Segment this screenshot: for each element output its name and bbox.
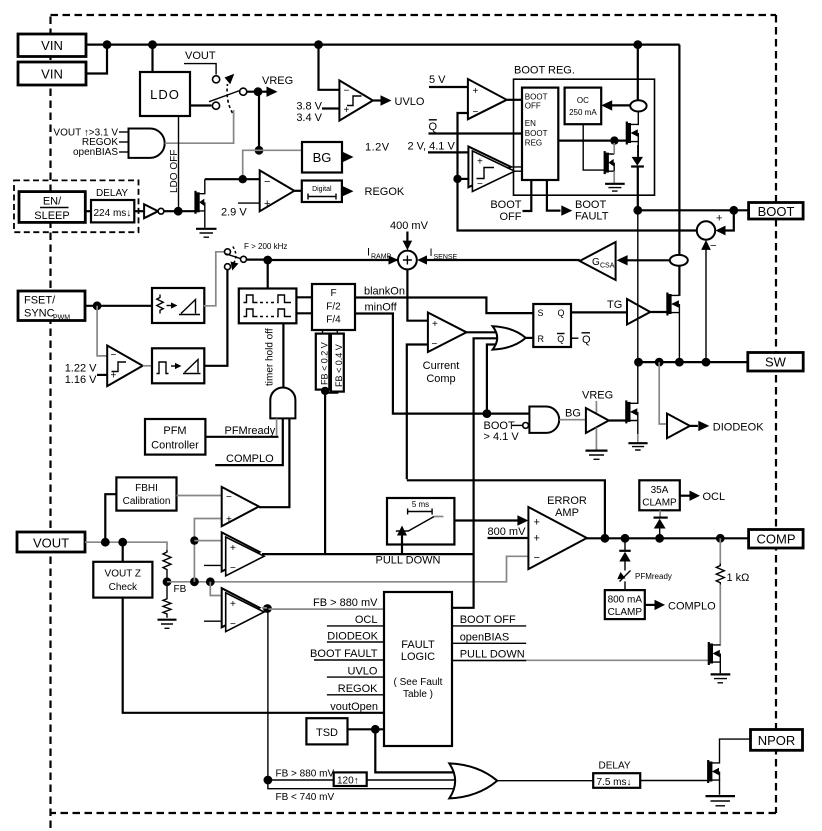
svg-text:VOUT Z: VOUT Z	[105, 569, 141, 580]
delay 7.5ms box	[593, 773, 640, 788]
svg-text:F: F	[330, 288, 336, 299]
wire BOOT OFF down-left label stub	[490, 180, 531, 223]
stub FB880 comp minus	[204, 620, 222, 622]
svg-text:PFM: PFM	[163, 425, 186, 437]
node junction rail/LDO	[148, 40, 157, 49]
svg-text:800 mA: 800 mA	[608, 595, 643, 606]
PULL DOWN arrow into 5ms box	[376, 526, 441, 567]
node SW/summing	[702, 358, 711, 367]
wire comp node to current comp minus	[407, 345, 428, 480]
fault input BOOT FAULT	[310, 648, 384, 660]
wire EN/SLEEP to 224ms	[85, 210, 91, 212]
svg-text:COMPLO: COMPLO	[668, 601, 716, 613]
OCL output arrow	[680, 491, 725, 504]
svg-text:BOOT: BOOT	[758, 204, 795, 219]
switch pole contact	[240, 88, 247, 95]
F switch top contact	[225, 249, 231, 255]
VOUT label at switch	[184, 50, 216, 75]
comparator U-FB02 double outline	[222, 532, 264, 575]
svg-text:+: +	[432, 319, 438, 330]
wire timer hold off	[282, 324, 284, 388]
node FB	[163, 577, 172, 586]
node EA/35clamp	[655, 534, 664, 543]
svg-text:VOUT: VOUT	[33, 536, 69, 551]
svg-text:35A: 35A	[651, 485, 669, 496]
svg-text:−: −	[432, 339, 438, 350]
wire FSET to ramp gen	[85, 305, 152, 307]
COMP terminal box	[749, 530, 804, 549]
wire comp2 double output to BOOT REG	[511, 167, 522, 171]
svg-text:Q: Q	[582, 334, 591, 346]
wire pulse box to divider (2)	[296, 297, 312, 313]
driver U-BG	[586, 408, 609, 433]
svg-text:openBIAS: openBIAS	[460, 632, 510, 644]
svg-text:AMP: AMP	[555, 507, 579, 519]
svg-text:LOGIC: LOGIC	[401, 651, 435, 663]
wire FB up to FBHI comp plus	[194, 519, 221, 582]
svg-text:OFF: OFF	[500, 211, 522, 223]
label 3.8V 3.4V	[296, 101, 339, 125]
OC 250mA box	[565, 88, 602, 125]
svg-text:openBIAS: openBIAS	[73, 147, 118, 158]
svg-text:EN: EN	[525, 119, 536, 128]
svg-text:BOOT REG.: BOOT REG.	[514, 65, 575, 77]
svg-text:UVLO: UVLO	[395, 96, 425, 108]
wire BG driver to FET gate	[609, 419, 627, 421]
label 2V 4.1V	[408, 141, 469, 153]
svg-text:NPOR: NPOR	[758, 733, 796, 748]
label BOOT>4.1V nand input	[484, 420, 529, 443]
resistor R1	[163, 550, 171, 582]
svg-text:−: −	[534, 552, 540, 564]
wire TSD node to POR or	[375, 729, 456, 772]
REGOK output arrow	[343, 186, 405, 198]
summing junction BOOT-SW	[697, 213, 723, 253]
wire sense ellipse to GCSA input	[617, 255, 670, 265]
driver U-TG	[627, 299, 650, 325]
svg-text:I: I	[430, 247, 433, 259]
wire VOUT to VOUT Z check	[122, 542, 124, 562]
svg-text:S: S	[538, 308, 544, 318]
wire 5ms to error amp plus arrow	[454, 515, 528, 525]
Digital filter box	[302, 181, 342, 203]
wire BOOT to summing plus	[715, 210, 733, 235]
fault output PULL DOWN	[452, 649, 526, 661]
svg-text:TG: TG	[607, 299, 622, 311]
COMPLO output arrow	[645, 600, 716, 613]
svg-text:BOOT: BOOT	[490, 199, 521, 211]
svg-text:Q: Q	[557, 334, 564, 344]
svg-text:−: −	[264, 176, 270, 188]
svg-text:Calibration: Calibration	[123, 496, 171, 507]
frequency divider box F F/2 F/4	[312, 284, 355, 330]
error amplifier U-EA	[528, 495, 587, 569]
svg-text:+: +	[716, 213, 722, 225]
wire FBHI box to comp minus	[177, 495, 222, 497]
node FB boxes output	[321, 387, 329, 395]
transistor Q-BOOT-HI	[627, 112, 639, 157]
node EA/currentcomp	[601, 534, 610, 543]
wire rail to LDO	[151, 45, 153, 72]
svg-text:I: I	[367, 247, 370, 259]
ground below R2	[158, 620, 177, 629]
VOUT Z Check box	[93, 562, 152, 598]
AND gate U-LDOOFF 3-input	[129, 129, 165, 158]
svg-text:224 ms↓: 224 ms↓	[94, 208, 132, 219]
wire diode to BOOT node	[637, 167, 639, 211]
wire BG driver ground stem	[595, 428, 597, 451]
fault input REGOK	[327, 683, 384, 695]
node SW/DIODEOK	[655, 358, 664, 367]
BOOT REG control inner box	[522, 88, 558, 180]
svg-text:FB: FB	[174, 584, 187, 595]
F switch motion arc dashed	[233, 247, 236, 264]
node LDO OFF gate	[174, 207, 183, 216]
wire rail down through BOOT REG	[637, 45, 639, 101]
wire AND output to switch control	[165, 110, 234, 143]
wire rail corner down right side	[678, 45, 680, 296]
node rail/BOOT branch	[633, 40, 642, 49]
wire fault right stub up to OR net	[452, 553, 474, 608]
wire VIN main rail	[86, 43, 680, 45]
switch lever	[209, 91, 240, 102]
transistor Q-PULLDOWN	[709, 642, 721, 673]
svg-text:BG: BG	[565, 408, 581, 420]
wire BOOT node to terminal	[638, 209, 749, 211]
svg-text:+: +	[534, 533, 540, 545]
FB<0.4V box vertical	[331, 334, 344, 392]
svg-text:2.9 V: 2.9 V	[221, 207, 247, 219]
wire FB740 to POR or	[268, 780, 458, 789]
wire TSD to fault logic	[348, 728, 385, 730]
OR gate U-POR	[449, 763, 497, 798]
wire VIN2 to rail	[86, 45, 107, 74]
transistor Q-LDOOFF	[196, 179, 205, 228]
svg-text:−: −	[226, 492, 232, 503]
wire blankOn to latch S	[355, 298, 533, 314]
svg-text:BOOT: BOOT	[525, 93, 548, 102]
wire PFMready stub to AND	[276, 418, 278, 436]
VIN terminal box 2	[18, 62, 86, 85]
fault input OCL	[327, 614, 384, 626]
buffer U-DIODEOK	[667, 414, 690, 439]
svg-text:VOUT: VOUT	[185, 50, 216, 62]
svg-text:BOOT OFF: BOOT OFF	[460, 614, 516, 626]
svg-text:OFF: OFF	[525, 102, 541, 111]
svg-text:400 mV: 400 mV	[390, 220, 429, 232]
wire PFMready	[205, 436, 278, 438]
120 rise box	[334, 772, 367, 786]
svg-text:+: +	[230, 599, 236, 610]
wire SW line	[639, 361, 748, 363]
VIN terminal box 1	[18, 34, 86, 57]
svg-text:FB > 880 mV: FB > 880 mV	[276, 769, 335, 780]
wire NAND to BG driver	[559, 419, 586, 421]
node FB880 out	[263, 604, 272, 613]
svg-text:( See Fault: ( See Fault	[394, 677, 443, 688]
NAND gate U-BG	[529, 407, 559, 433]
svg-text:BG: BG	[313, 150, 332, 165]
node SW/TG-source	[675, 358, 684, 367]
comparator U-2.9V	[260, 170, 295, 211]
FB<0.2V box vertical	[316, 334, 330, 390]
svg-text:Comp: Comp	[426, 373, 455, 385]
BOOT terminal box	[749, 203, 804, 220]
svg-text:800 mV: 800 mV	[488, 526, 527, 538]
FAULT LOGIC box	[384, 592, 452, 746]
svg-text:PULL DOWN: PULL DOWN	[376, 555, 441, 567]
svg-text:Controller: Controller	[151, 440, 199, 452]
svg-text:TSD: TSD	[316, 727, 338, 739]
label REGOK input	[82, 137, 129, 148]
svg-text:FB < 0.4 V: FB < 0.4 V	[334, 344, 344, 387]
wire ISENSE from GCSA	[417, 255, 580, 264]
wire summing to current comp plus	[407, 269, 428, 320]
svg-text:2 V, 4.1 V: 2 V, 4.1 V	[408, 141, 456, 153]
ramp generator box 1	[152, 288, 204, 323]
svg-text:+: +	[477, 157, 483, 168]
VREG output arrow	[258, 75, 293, 97]
svg-text:+: +	[344, 105, 350, 116]
fault input DIODEOK	[327, 631, 384, 643]
label ISENSE	[430, 247, 458, 261]
svg-text:COMPLO: COMPLO	[226, 453, 274, 465]
DIODEOK output arrow	[690, 421, 764, 434]
svg-text:FB > 880 mV: FB > 880 mV	[313, 597, 378, 609]
ground below Q-PULLDOWN	[711, 674, 731, 682]
switch contact VOUT (top)	[213, 76, 220, 83]
switch motion arc dashed	[227, 84, 232, 113]
node EA/COMP	[716, 534, 725, 543]
wire IRAMP	[247, 255, 400, 264]
svg-text:VREG: VREG	[262, 75, 293, 87]
wire FBHI comp out to AND third input	[259, 418, 290, 507]
wire error amp output to COMP	[587, 537, 749, 539]
wire osc1 to F switch top	[204, 252, 224, 306]
wire 224ms to inverter	[134, 210, 144, 212]
node minOff/OR branch	[483, 409, 492, 418]
NPOR terminal box	[751, 730, 803, 751]
label 800mV	[488, 526, 529, 538]
svg-text:EN/: EN/	[43, 196, 62, 208]
svg-text:3.4 V: 3.4 V	[296, 112, 322, 124]
comparator U-UVLO with hysteresis	[339, 80, 373, 120]
LDO block	[140, 72, 190, 116]
svg-text:OCL: OCL	[703, 491, 726, 503]
comparator U-FBHI	[222, 487, 259, 526]
transistor Q-BOOT-LO	[605, 143, 615, 183]
node FB/880comp tap	[206, 577, 215, 586]
svg-text:DELAY: DELAY	[96, 188, 128, 199]
svg-text:DIODEOK: DIODEOK	[713, 422, 764, 434]
ground below U-BG driver	[586, 451, 608, 460]
wire FET drain to comparator minus	[205, 178, 260, 180]
node SW/BG-FET	[634, 358, 643, 367]
wire COMPLO	[215, 418, 283, 465]
node gate branch	[610, 136, 618, 144]
svg-text:Q: Q	[429, 121, 438, 133]
node IRAMP branch	[263, 256, 272, 265]
switch motion arrowhead	[225, 74, 235, 85]
dual pulse waveform box	[239, 289, 297, 324]
svg-text:FAULT: FAULT	[575, 211, 609, 223]
svg-text:Current: Current	[423, 360, 460, 372]
wire COMP node to 1k	[719, 538, 721, 565]
BG block	[302, 142, 342, 173]
svg-text:REGOK: REGOK	[338, 683, 378, 695]
svg-text:F > 200 kHz: F > 200 kHz	[244, 242, 287, 251]
wire FB net	[167, 556, 528, 582]
wire PULL DOWN to FET gate	[452, 659, 709, 661]
latch Qbar stub and label	[571, 333, 591, 346]
wire pole to VREG node	[247, 91, 258, 93]
wire FB880 to POR or through 120 box	[268, 779, 456, 781]
OR gate U-RESET	[493, 326, 526, 349]
node VOUT/VOUTZ	[118, 538, 127, 547]
stub FB02 comp minus	[204, 564, 222, 566]
svg-text:1.16 V: 1.16 V	[65, 374, 97, 386]
svg-text:+: +	[230, 543, 236, 554]
svg-text:DELAY: DELAY	[599, 761, 631, 772]
wire tap to FB02 comp plus	[194, 540, 221, 542]
wire current comp out to OR	[467, 331, 498, 333]
svg-text:PULL DOWN: PULL DOWN	[460, 649, 525, 661]
svg-text:120↑: 120↑	[337, 776, 359, 787]
node BOOT terminal branch	[729, 206, 738, 215]
svg-text:BOOT: BOOT	[525, 129, 548, 138]
arrow OC sense to OC box	[601, 100, 630, 110]
svg-text:+: +	[264, 198, 270, 210]
svg-text:COMP: COMP	[757, 532, 796, 547]
wire EN BOOT REG to upper FET gate	[558, 140, 627, 142]
comparator U-SYNC with hysteresis	[107, 346, 143, 387]
fault input UVLO	[327, 666, 384, 678]
wire SW up to summing minus	[701, 240, 711, 362]
svg-text:1.22 V: 1.22 V	[65, 363, 97, 375]
amp GCSA left-pointing	[580, 242, 616, 280]
wire IRAMP node down to pulse box	[267, 260, 269, 289]
node BG feed	[255, 146, 264, 155]
svg-text:5 ms: 5 ms	[412, 500, 429, 509]
1.2V output arrow	[342, 142, 390, 163]
node EA/800clamp	[621, 534, 630, 543]
wire latch Q to TG driver	[571, 311, 627, 313]
wire POR or to delay	[497, 780, 593, 782]
wire grey VREG to comparator tap	[243, 150, 259, 179]
svg-text:Q: Q	[558, 308, 565, 318]
comparator U-CURRENT	[423, 313, 467, 386]
svg-text:PFMready: PFMready	[225, 425, 276, 437]
svg-text:1 kΩ: 1 kΩ	[727, 572, 750, 584]
wire LDO OFF vertical	[178, 116, 180, 211]
wire FB02 comp out	[262, 553, 474, 555]
node comp2 minus tap	[453, 175, 461, 183]
svg-text:Table ): Table )	[403, 689, 433, 700]
wire VOUT to FBHI cal box	[105, 494, 116, 542]
wire BOOT rail through TG driver to SW	[637, 210, 639, 362]
35A CLAMP box	[639, 480, 680, 510]
svg-text:OC: OC	[577, 96, 589, 105]
svg-text:OCL: OCL	[355, 614, 378, 626]
wire OC box to lower FET gate	[583, 124, 605, 170]
svg-text:minOff: minOff	[365, 302, 398, 314]
svg-text:R: R	[538, 334, 545, 344]
wire gate node to FET gate	[178, 210, 194, 212]
UVLO output arrow	[373, 95, 425, 108]
node TSD/POR	[371, 725, 380, 734]
PFM Controller box	[145, 419, 205, 455]
node POR input	[264, 776, 273, 785]
wire FB02 line to OR input	[474, 338, 497, 553]
svg-text:Check: Check	[109, 582, 138, 593]
svg-text:SYNC: SYNC	[24, 308, 55, 320]
ground below Q-LDOOFF	[196, 229, 217, 237]
AND gate U-TIMER up-pointing	[270, 387, 295, 418]
current sense ellipse OC	[630, 100, 646, 111]
label 1.22V 1.16V	[65, 363, 108, 387]
fault output openBIAS	[452, 632, 526, 644]
wire 1k to pulldown FET	[719, 585, 721, 646]
wire FSET node to sync comp	[97, 306, 107, 356]
svg-text:blankOn: blankOn	[364, 286, 405, 298]
diode D-BOOT	[631, 145, 644, 167]
svg-text:LDO: LDO	[150, 87, 180, 102]
wire COMP node to current comp route	[407, 480, 605, 538]
wire VOUT Z to voutOpen	[123, 598, 384, 713]
TSD box	[306, 718, 347, 744]
EN/SLEEP dashed group box	[14, 180, 139, 232]
svg-text:F/2: F/2	[326, 302, 341, 313]
transistor Q-TG	[667, 293, 679, 363]
switch contact LDO (bottom)	[212, 102, 219, 109]
wire comp to Digital	[294, 190, 302, 192]
svg-text:PWM: PWM	[53, 315, 70, 322]
label VREG at BG driver	[582, 390, 613, 415]
wire FB tap to 880 comp plus	[210, 582, 221, 596]
svg-text:BOOT FAULT: BOOT FAULT	[310, 648, 378, 660]
label 5V	[429, 74, 468, 87]
svg-text:−: −	[230, 563, 236, 574]
wire delay to NPOR FET gate	[640, 780, 708, 782]
svg-text:FB < 0.2 V: FB < 0.2 V	[319, 342, 329, 385]
wire OR out to latch R	[526, 337, 534, 339]
node VREG	[254, 87, 263, 96]
FBHI Calibration box	[116, 477, 176, 510]
wire FB880 out to fault logic	[262, 608, 384, 609]
wire VOUT to divider	[85, 542, 167, 550]
svg-text:F/4: F/4	[326, 315, 341, 326]
svg-text:G: G	[592, 257, 600, 268]
label openBIAS input	[73, 147, 129, 158]
svg-text:+: +	[534, 517, 540, 529]
svg-text:Digital: Digital	[312, 186, 332, 193]
svg-text:250 mA: 250 mA	[569, 108, 597, 117]
PFMready switch on clamp	[617, 571, 672, 591]
svg-text:−: −	[473, 107, 479, 118]
svg-text:VIN: VIN	[41, 38, 63, 53]
svg-text:VIN: VIN	[41, 67, 63, 82]
node FB/comp taps	[190, 577, 199, 586]
F switch lever	[226, 254, 241, 259]
node FSET	[93, 301, 102, 310]
svg-text:+: +	[226, 515, 232, 526]
F switch motion arrowhead	[231, 262, 239, 271]
soft start 5ms box	[387, 498, 454, 545]
wire inverter to gate node	[164, 210, 178, 212]
svg-text:3.8 V: 3.8 V	[296, 101, 322, 113]
BOOT REG outer box	[514, 79, 655, 195]
svg-text:VREG: VREG	[582, 390, 613, 402]
